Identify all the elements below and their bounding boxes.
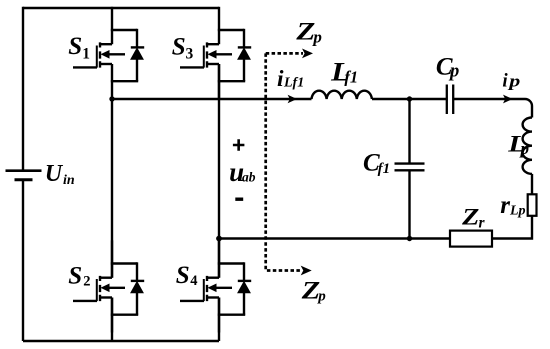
svg-text:ab: ab — [242, 170, 256, 185]
wire source lead S1 — [111, 64, 113, 99]
wire dashed vertical Zp — [264, 53, 267, 270]
svg-text:f1: f1 — [378, 161, 391, 177]
capacitor Cp plates — [446, 85, 448, 115]
svg-text:3: 3 — [186, 46, 194, 63]
wire Cp to top-right corner — [454, 99, 532, 118]
wire output node A to Lf1 — [112, 98, 312, 100]
wire drain lead S1 — [111, 7, 113, 44]
svg-text:p: p — [519, 139, 530, 158]
capacitor Cf1 plates — [395, 162, 425, 164]
impedance Zr box — [450, 231, 492, 247]
wire S4 source to bottom rail — [218, 298, 220, 342]
mosfet channel stubs S1 — [100, 43, 112, 45]
svg-text:1: 1 — [82, 45, 90, 62]
mosfet gate bar S1 — [96, 46, 98, 68]
wire Zr to node B — [219, 237, 450, 239]
wire diode branch top S1 — [111, 29, 137, 31]
wire cell bottom S1 — [111, 80, 138, 82]
battery Uin long plate — [6, 169, 42, 172]
svg-text:U: U — [45, 161, 64, 187]
svg-text:i: i — [277, 66, 284, 92]
wire Lf1 to Cp / node C — [372, 98, 446, 100]
resistor rLp box — [528, 194, 537, 216]
svg-text:p: p — [507, 72, 521, 91]
measurement dashed bracket Zp — [266, 53, 303, 270]
node C junction dot — [407, 96, 412, 101]
svg-text:p: p — [311, 28, 322, 47]
wire Cf1 to bottom node D — [408, 171, 410, 238]
label minus sign — [235, 197, 243, 200]
diode D1 of S1 — [136, 29, 138, 47]
current arrow iLf1 — [288, 95, 297, 104]
current arrow ip — [503, 95, 513, 104]
mosfet arrow S1 — [101, 50, 110, 59]
svg-text:Z: Z — [461, 205, 479, 231]
wire right leg S3 source to node B — [218, 64, 220, 239]
svg-text:S: S — [172, 34, 186, 61]
arrowhead top Zp — [302, 49, 313, 59]
wire left side lower (battery to bottom rail) — [22, 181, 24, 342]
svg-text:r: r — [479, 214, 486, 231]
transistor S3 (MOSFET with body diode) — [180, 7, 251, 99]
svg-text:S: S — [68, 263, 82, 290]
svg-text:p: p — [448, 62, 459, 82]
wire dashed top arrow Zp — [266, 52, 303, 55]
wire left leg between A and S2 — [111, 99, 113, 278]
svg-text:4: 4 — [190, 273, 197, 289]
svg-text:Z: Z — [295, 19, 315, 46]
battery Uin short plate — [15, 178, 33, 181]
wire gate lead S1 — [73, 66, 97, 68]
label plus sign — [233, 139, 245, 151]
svg-text:Lp: Lp — [509, 204, 526, 219]
svg-text:i: i — [502, 71, 508, 92]
wire bottom rail — [23, 340, 219, 342]
wire S4 drain node B down — [218, 239, 220, 278]
svg-text:2: 2 — [83, 274, 90, 290]
wire left side upper (to battery) — [22, 7, 24, 170]
svg-text:p: p — [316, 289, 326, 305]
inductor Lf1 — [312, 91, 372, 99]
svg-text:Lf1: Lf1 — [283, 76, 304, 91]
node A junction dot — [109, 96, 114, 101]
arrowhead bottom Zp — [301, 266, 312, 276]
wire rLp to bottom-right corner — [492, 216, 532, 239]
node D junction dot — [407, 236, 412, 241]
wire node C to Cf1 — [408, 99, 410, 163]
wire S2 source to bottom rail — [111, 298, 113, 342]
inductor Lp — [523, 118, 532, 174]
node B junction dot — [216, 236, 222, 242]
transistor S4 (MOSFET with body diode) — [180, 240, 251, 332]
svg-text:r: r — [500, 192, 510, 219]
mosfet channel segments S1 — [99, 42, 101, 67]
transistor S2 (MOSFET with body diode) — [73, 240, 144, 332]
wire dashed bottom arrow Zp — [267, 269, 302, 272]
wire top rail — [23, 7, 219, 9]
transistor S1 (MOSFET with body diode) — [73, 7, 144, 99]
svg-text:f1: f1 — [344, 67, 358, 86]
svg-text:S: S — [176, 262, 190, 289]
svg-text:in: in — [63, 173, 75, 188]
svg-text:S: S — [68, 33, 82, 60]
wire Lp to rLp — [531, 174, 533, 194]
